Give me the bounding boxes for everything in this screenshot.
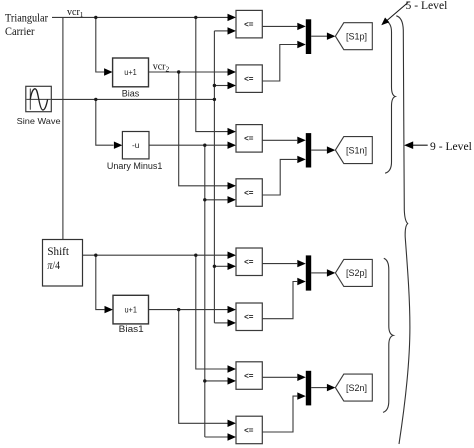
svg-text:[S2n]: [S2n] [346,383,367,393]
svg-text:[S2p]: [S2p] [346,268,367,278]
wire mux1 out to S1p [311,35,327,37]
sine wave source block [26,86,52,111]
svg-text:Unary Minus1: Unary Minus1 [107,161,163,171]
svg-text:Bias: Bias [122,88,140,98]
svg-text:Sine Wave: Sine Wave [17,116,61,126]
svg-text:<=: <= [244,426,254,435]
wire vcr1 riser to b3 [196,17,228,131]
bias1 block [113,295,149,324]
wire shift output [83,254,228,256]
wire vcr1 drop to Shift [62,17,64,239]
arrow from 5-Level label to brace [381,3,408,26]
shift subsystem block [43,240,83,287]
svg-text:vcr1: vcr1 [67,7,84,19]
arrowheads into mux bars [297,23,306,30]
wire bias1 output [149,309,228,311]
svg-text:-u: -u [132,140,140,150]
unary minus block [122,132,149,159]
arrowheads into Bias, Unary Minus1, Bias1 [104,68,113,75]
mux M2 [306,133,311,167]
relational operator b7 [236,362,262,390]
wire mux4 out to S2n [311,387,327,389]
svg-text:<=: <= [244,188,254,197]
goto tag S1n [335,137,372,164]
wire sine to b6 in2 [214,322,227,324]
svg-text:[S1n]: [S1n] [346,145,367,155]
svg-text:Bias1: Bias1 [119,324,144,334]
arrowheads into goto tags [327,33,336,40]
wire -sine to b8 in2 [205,436,228,438]
wire b5 out to mux3 [262,263,297,265]
wire -sine riser bus [204,145,206,437]
wire b4 out to mux2 [262,159,297,195]
svg-text:vcr2: vcr2 [153,62,170,74]
wire b1 out to mux1 [262,25,297,27]
svg-text:9 - Level: 9 - Level [430,140,472,153]
mux M3 [306,255,311,290]
wire sine to b2 in2 [214,85,227,87]
relational operator b6 [236,303,262,331]
relational operator b5 [236,248,262,276]
svg-text:[S1p]: [S1p] [346,31,367,41]
svg-text:u+1: u+1 [124,67,137,77]
junction dots [94,16,216,383]
wire sine to b1 in2 [214,30,227,32]
wire vcr1 drop to Bias [96,17,104,72]
wire vcr2 Bias output [149,71,228,73]
wire b8 out to mux4 [262,396,297,432]
mux M1 [306,19,311,54]
mux M4 [306,371,311,406]
relational operator b1 [236,10,262,38]
svg-text:<=: <= [244,75,254,84]
wire -sine to b7 in2 [205,380,228,382]
svg-text:<=: <= [244,313,254,322]
goto tag S2p [335,259,372,286]
wire sine drop to unary minus [96,99,114,145]
wire b2 out to mux1 [262,45,297,82]
brace for S1 pair [385,21,395,174]
svg-text:<=: <= [244,20,254,29]
goto tag S2n [335,374,372,401]
wire sine output [51,98,214,100]
svg-text:π/4: π/4 [47,258,60,272]
wire b3 out to mux2 [262,139,297,141]
wire -sine to b4 in2 [205,199,228,201]
wire mux2 out to S1n [311,149,327,151]
brace for S2 pair [383,258,393,412]
brace 9-level full span [396,16,410,444]
wire shift riser to b7 [196,255,228,369]
svg-text:u+1: u+1 [124,305,137,315]
wire sine to b5 in2 [214,265,227,267]
wire bias1 riser to b8 [179,310,228,424]
bias block [113,58,149,87]
wire b7 out to mux4 [262,376,297,378]
arrow from 9-Level label to brace [404,141,428,149]
relational operator b8 [236,416,262,444]
relational operator b3 [236,125,262,153]
svg-text:Carrier: Carrier [5,24,35,38]
input arrowheads of relational blocks [104,14,335,441]
wire b6 out to mux3 [262,282,297,319]
relational operator b2 [236,65,262,93]
wire vcr2 riser to b4 [179,72,228,186]
svg-text:5 - Level: 5 - Level [406,0,448,12]
svg-text:Shift: Shift [47,244,69,258]
svg-text:<=: <= [244,258,254,267]
svg-text:Triangular: Triangular [5,11,48,25]
wire mux3 out to S2p [311,272,327,274]
svg-text:<=: <= [244,134,254,143]
wire sine riser bus [213,31,215,323]
goto tag S1p [335,23,372,50]
wire shift drop to Bias1 [96,255,105,309]
svg-text:<=: <= [244,371,254,380]
relational operator b4 [236,179,262,207]
wire vcr1 horizontal [52,16,228,18]
wire unary minus output [149,144,228,146]
